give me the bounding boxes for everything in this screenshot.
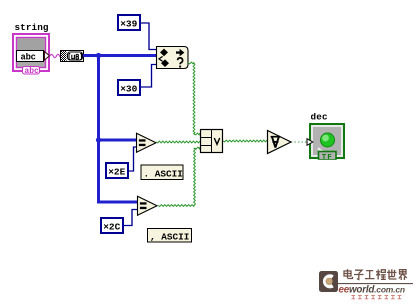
svg-text:TF: TF — [322, 154, 333, 162]
svg-text:×2E: ×2E — [108, 167, 125, 178]
svg-text:, ASCII: , ASCII — [150, 231, 189, 242]
svg-text:eeworld.com.cn: eeworld.com.cn — [339, 284, 405, 295]
svg-text:. ASCII: . ASCII — [144, 168, 183, 179]
svg-text:×30: ×30 — [120, 84, 137, 95]
svg-text:abc: abc — [21, 52, 36, 62]
svg-text:×39: ×39 — [120, 19, 137, 30]
svg-text:dec: dec — [311, 112, 329, 123]
svg-text:×2C: ×2C — [103, 222, 120, 233]
svg-text:string: string — [15, 22, 49, 33]
svg-text:abc: abc — [24, 67, 39, 76]
